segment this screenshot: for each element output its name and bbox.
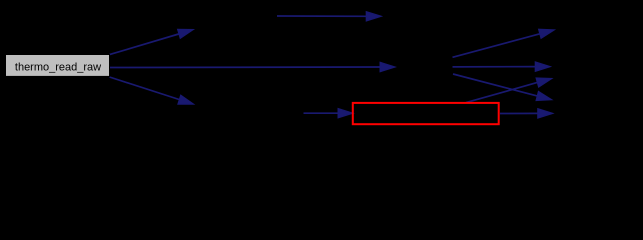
highlighted node (red border box) bbox=[353, 103, 499, 124]
svg-text:thermo_read_raw: thermo_read_raw bbox=[15, 61, 101, 73]
edge highlighted node -> node R5 (bottom right) bbox=[500, 109, 553, 119]
edge highlighted node -> node R3 (right) bbox=[466, 78, 552, 103]
edge thermo_read_raw -> node B (center column) bbox=[110, 62, 395, 72]
edge node C -> highlighted node bbox=[304, 108, 354, 118]
edge node B -> node R2 (middle right) bbox=[453, 62, 551, 72]
edge thermo_read_raw -> node A (upper middle column) bbox=[110, 29, 194, 54]
edge node A -> node D (top row) bbox=[277, 12, 382, 22]
node thermo_read_raw (current node, grey fill, black border) bbox=[6, 55, 110, 77]
edge node B -> node R1 (upper right) bbox=[453, 29, 555, 57]
edge node B -> node R4 (lower right) bbox=[453, 74, 552, 101]
edge thermo_read_raw -> node C (lower middle column) bbox=[110, 77, 194, 104]
